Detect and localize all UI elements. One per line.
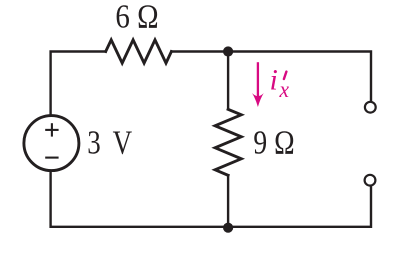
wire middle branch lower bbox=[227, 175, 229, 227]
resistor R1 6-ohm zigzag bbox=[106, 40, 172, 63]
svg-text:3: 3 bbox=[87, 124, 101, 161]
svg-text:9 Ω: 9 Ω bbox=[253, 125, 294, 162]
wire top-right segment bbox=[171, 52, 371, 101]
wire top-left segment bbox=[51, 52, 106, 115]
voltage source minus sign bbox=[45, 157, 58, 159]
current arrow i'x (magenta) bbox=[252, 62, 264, 107]
node dot bottom bbox=[223, 223, 233, 233]
node dot top bbox=[223, 46, 233, 56]
terminal top open circle bbox=[365, 102, 376, 113]
label i'x current name (magenta italic) bbox=[270, 64, 290, 103]
terminal bottom open circle bbox=[365, 175, 376, 186]
svg-text:6 Ω: 6 Ω bbox=[115, 0, 158, 36]
svg-text:V: V bbox=[113, 124, 133, 161]
voltage source V1 circle bbox=[24, 116, 79, 171]
wire middle branch upper bbox=[227, 52, 229, 110]
voltage source plus sign bbox=[45, 123, 58, 136]
wire bottom segment bbox=[51, 171, 371, 227]
svg-text:i: i bbox=[270, 64, 278, 97]
svg-text:x: x bbox=[279, 77, 290, 102]
resistor R2 9-ohm zigzag bbox=[215, 109, 241, 175]
